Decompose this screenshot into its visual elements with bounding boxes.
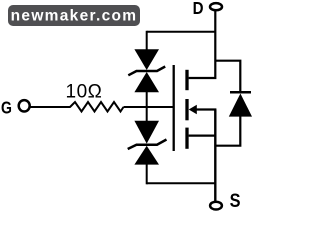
bottom rail wire <box>147 182 216 184</box>
wire diode branch bottom <box>215 117 240 146</box>
MOSFET Q1 drain lead <box>189 11 216 78</box>
wire right vertical to S <box>214 110 216 202</box>
svg-text:G: G <box>1 98 12 118</box>
resistor R zigzag <box>70 102 124 112</box>
terminal D label <box>193 0 204 19</box>
terminal G circle <box>19 100 30 111</box>
zener TVS D2 (bidirectional) <box>128 121 167 165</box>
MOSFET Q1 channel segment top <box>185 70 188 90</box>
wire TVS stack top <box>146 31 148 51</box>
MOSFET Q1 source lead <box>189 135 217 137</box>
diode D3 anode triangle <box>229 94 252 117</box>
wire TVS stack bottom <box>146 164 148 184</box>
wire diode branch top <box>215 61 240 93</box>
wire TVS mid node <box>146 92 148 121</box>
MOSFET Q1 channel segment bottom <box>185 128 188 149</box>
svg-text:D: D <box>193 0 204 19</box>
terminal S label <box>230 190 241 211</box>
terminal G label <box>1 98 12 118</box>
zener TVS D1 (bidirectional) <box>128 49 165 92</box>
diode D3 cathode bar <box>230 91 251 94</box>
svg-text:S: S <box>230 190 241 211</box>
MOSFET Q1 gate bar <box>173 65 175 151</box>
wire resistor to gate bar <box>124 106 175 108</box>
svg-text:newmaker.com: newmaker.com <box>11 8 138 25</box>
MOSFET Q1 channel segment middle <box>185 99 188 120</box>
MOSFET Q1 body lead <box>195 108 216 110</box>
MOSFET Q1 body arrow <box>189 105 197 115</box>
terminal D circle <box>210 3 222 10</box>
svg-text:10Ω: 10Ω <box>66 82 103 103</box>
terminal S circle <box>210 202 222 210</box>
watermark newmaker.com <box>8 5 140 26</box>
top rail wire <box>147 31 216 33</box>
wire G to resistor <box>30 106 71 108</box>
